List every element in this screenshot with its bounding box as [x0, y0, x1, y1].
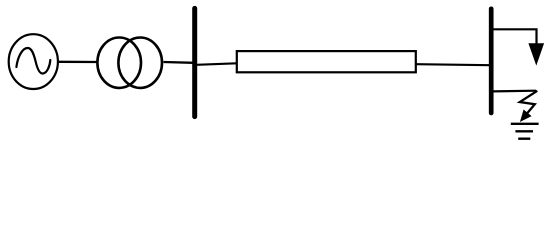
- wire generator to transformer: [59, 61, 98, 64]
- ground top line: [511, 123, 539, 125]
- wire bus 2 to fault: [493, 90, 537, 93]
- generator G1 sine wave: [16, 48, 50, 74]
- transformer T1 primary winding: [97, 38, 141, 88]
- generator G1: [9, 34, 58, 89]
- bus 1: [192, 8, 197, 116]
- wire bus 2 to load: [493, 29, 537, 44]
- wire bus 1 to transmission line: [197, 63, 237, 65]
- transformer T1 secondary winding: [118, 38, 162, 88]
- fault arrowhead: [520, 110, 532, 123]
- wire transformer to bus 1: [164, 61, 194, 64]
- load arrowhead: [528, 43, 544, 65]
- ground bottom line: [518, 137, 530, 139]
- transmission line box: [237, 51, 416, 72]
- bus 2: [489, 9, 494, 113]
- wire transmission line to bus 2: [417, 64, 491, 65]
- ground middle line: [515, 130, 533, 132]
- fault lightning bolt: [520, 91, 538, 116]
